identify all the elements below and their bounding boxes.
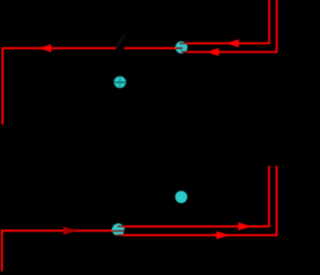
current arrow on wire A (left) — [226, 39, 239, 47]
node N1 wire stub A (dark) — [180, 42, 188, 44]
probe dot P1 vertical band — [119, 76, 121, 88]
node N2 wire stub F (dark) — [116, 234, 123, 236]
node N1 wire stub B (dark) — [181, 51, 187, 53]
node N2 wire stub D (dark, crossing) — [112, 230, 124, 232]
probe dot P2 plain — [175, 191, 187, 203]
current arrow on wire E (right) — [238, 222, 251, 230]
probe dot P1 horizontal crosshair line — [113, 81, 126, 83]
wire bottom horizontal E + right inner vertical — [124, 166, 269, 227]
probe dot P1 with crosshair — [114, 76, 126, 88]
current arrow on wire F (right) — [216, 231, 230, 239]
wire bottom horizontal F + right outer vertical — [121, 166, 277, 235]
node N1 wire stub C (dark) — [176, 47, 183, 49]
wire top-right inner vertical + horizontal A — [187, 0, 269, 43]
wire bottom horizontal D + left vertical — [2, 231, 112, 271]
node junction dot top (N1) — [175, 41, 187, 53]
wire top horizontal C right segment — [124, 47, 175, 49]
wire top-right outer vertical + horizontal B — [187, 0, 277, 52]
node junction dot bottom (N2) — [112, 223, 124, 235]
wire top horizontal C left segment + left vertical — [3, 48, 116, 124]
current arrow on wire B (left) — [206, 48, 219, 56]
current arrow on wire D (right, dim) — [63, 227, 77, 235]
node N2 wire stub E (dark) — [117, 225, 124, 227]
switch S1 lever (faint) — [116, 35, 124, 47]
current arrow on wire C (left) — [39, 44, 52, 52]
